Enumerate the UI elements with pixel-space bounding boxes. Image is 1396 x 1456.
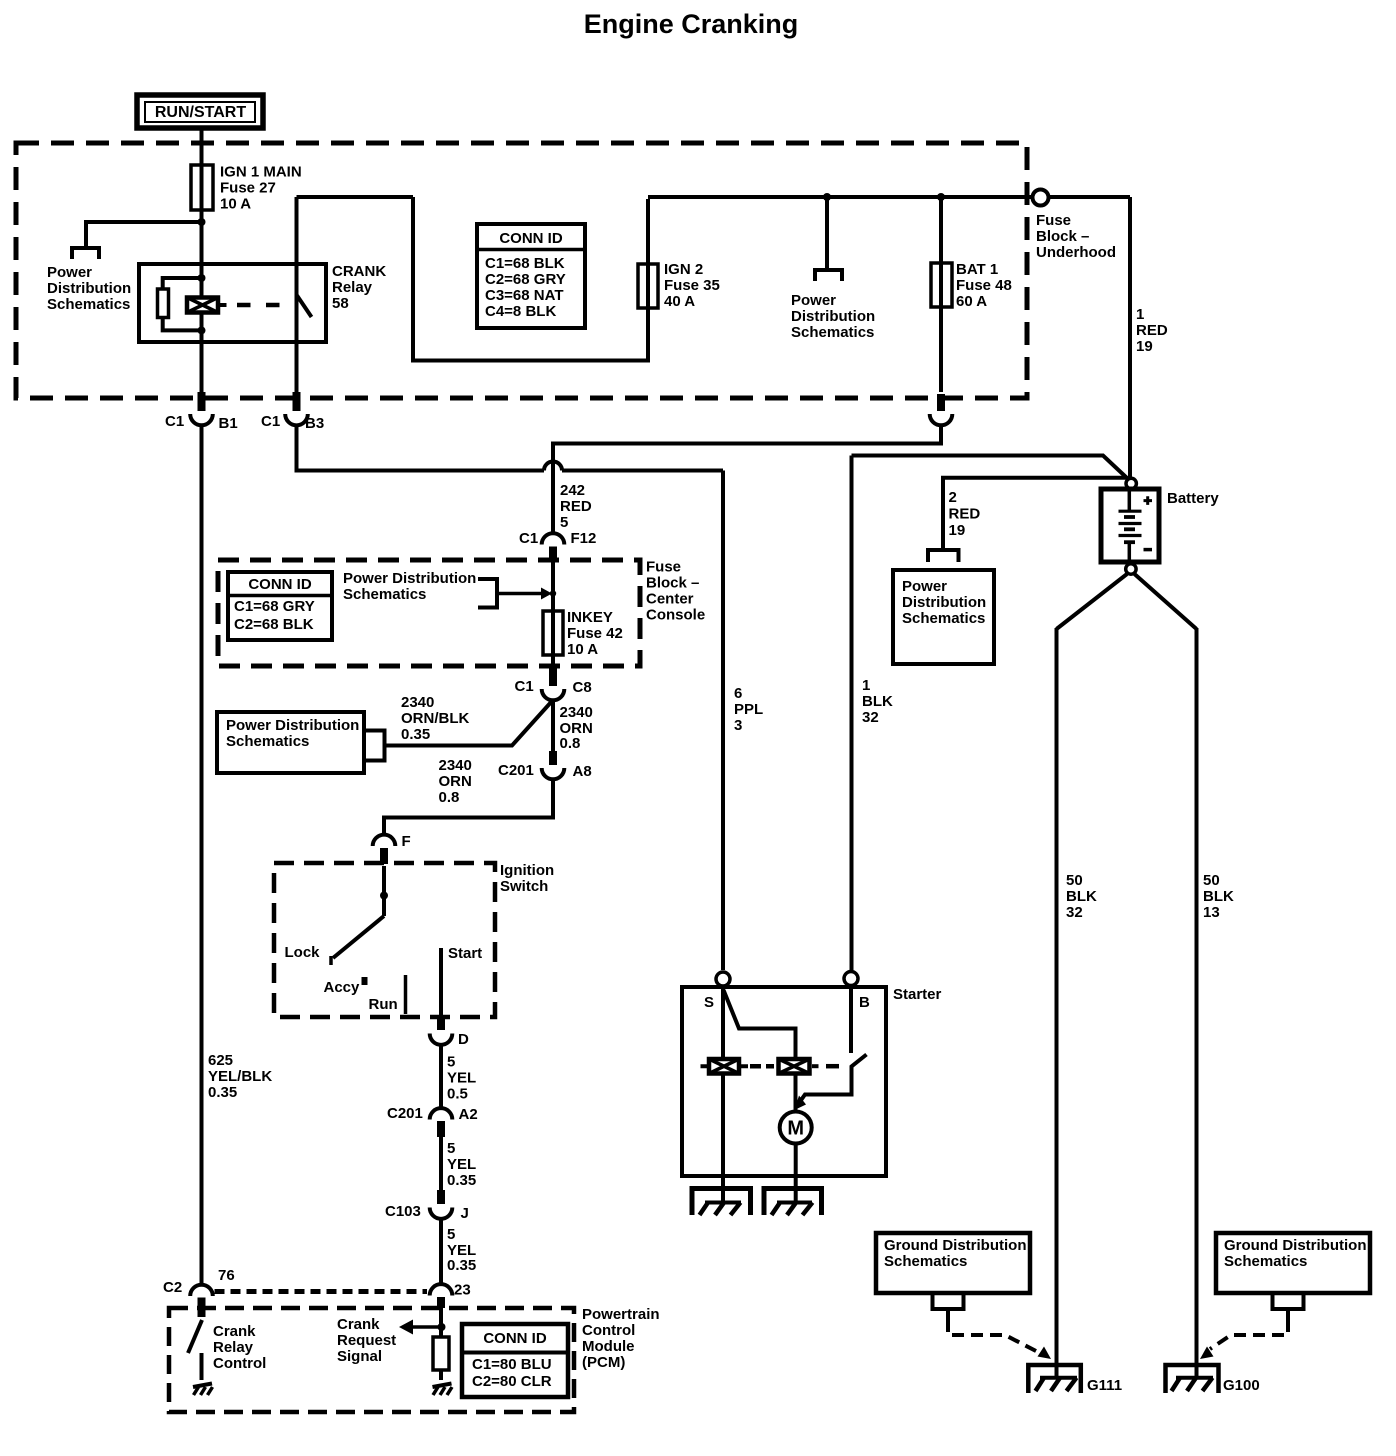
connector C201 A8 cup [542, 768, 565, 779]
wire IGN2 vertical redrawn through fuse [646, 262, 650, 310]
svg-text:CONN ID: CONN ID [483, 1330, 547, 1347]
svg-text:0.35: 0.35 [208, 1084, 237, 1101]
svg-text:Schematics: Schematics [47, 296, 130, 313]
arrow GD left pointer [1038, 1347, 1052, 1360]
wire loop down to IGN2 fuse [413, 197, 648, 361]
node junction dot above BAT1 fuse [937, 193, 945, 201]
wire console PDS pointer line [497, 592, 543, 596]
wire starter motor to case [794, 1144, 798, 1177]
svg-text:C2=80 CLR: C2=80 CLR [472, 1373, 552, 1390]
svg-text:YEL: YEL [447, 1070, 476, 1087]
svg-text:F12: F12 [571, 530, 597, 547]
svg-text:C2=68 GRY: C2=68 GRY [485, 271, 566, 288]
wire B3 to starter S run [297, 427, 545, 471]
node junction dot above PDS bracket [823, 193, 831, 201]
svg-text:Schematics: Schematics [1224, 1253, 1307, 1270]
connector C103 J stub [437, 1190, 445, 1204]
svg-text:19: 19 [949, 522, 966, 539]
svg-text:Schematics: Schematics [226, 733, 309, 750]
svg-text:S: S [704, 994, 714, 1011]
wire starter S vertical through solenoid [721, 986, 725, 1176]
svg-text:Fuse 27: Fuse 27 [220, 180, 276, 197]
svg-text:Accy: Accy [324, 979, 361, 996]
svg-text:1: 1 [862, 677, 870, 694]
svg-text:YEL/BLK: YEL/BLK [208, 1068, 272, 1085]
node coil bottom junction dot [198, 326, 206, 334]
svg-text:3: 3 [734, 717, 742, 734]
svg-text:2340: 2340 [560, 704, 593, 721]
svg-text:Block –: Block – [1036, 228, 1089, 245]
fuse F27 IGN 1 MAIN body [191, 165, 213, 210]
svg-text:BLK: BLK [1066, 888, 1097, 905]
ground chassis mini (crank relay control) [193, 1384, 213, 1396]
svg-text:B1: B1 [219, 415, 238, 432]
svg-text:1: 1 [1136, 306, 1144, 323]
wire Start contact down [439, 948, 443, 1017]
ground G111 [1028, 1365, 1081, 1393]
svg-text:C2=68 BLK: C2=68 BLK [234, 616, 314, 633]
svg-text:Request: Request [337, 1332, 396, 1349]
connector C1 B1 cup [190, 414, 213, 425]
connector BAT1 fuse output stub [937, 394, 945, 411]
wire crank relay control lower [200, 1353, 204, 1380]
svg-text:Signal: Signal [337, 1348, 382, 1365]
relay K58 CRANK Relay box [139, 264, 326, 342]
dashed box Powertrain Control Module [169, 1308, 574, 1412]
svg-text:60 A: 60 A [956, 293, 987, 310]
wire A8 to ignition switch F [384, 779, 553, 833]
svg-text:Control: Control [582, 1322, 635, 1339]
svg-text:BLK: BLK [862, 693, 893, 710]
wire 1 RED 19 battery feed [1128, 197, 1132, 477]
wire battery negative split diagonals [1057, 574, 1197, 629]
svg-text:Relay: Relay [332, 279, 373, 296]
wire junction to left reference stem [86, 222, 202, 246]
dashed box Fuse Block Center Console [218, 560, 640, 666]
node ignition pivot dot [380, 892, 388, 900]
svg-text:Fuse: Fuse [1036, 212, 1071, 229]
svg-text:J: J [461, 1205, 469, 1222]
svg-text:0.35: 0.35 [447, 1172, 476, 1189]
wire BAT1 fuse vertical [939, 197, 943, 392]
svg-text:C1=68 GRY: C1=68 GRY [234, 598, 315, 615]
node coil top junction dot [198, 274, 206, 282]
connector C1 C8 stub [549, 667, 557, 686]
reference bracket mid-left PDS [364, 731, 385, 761]
svg-text:RED: RED [1136, 322, 1168, 339]
svg-text:Power: Power [902, 578, 947, 595]
svg-text:F: F [402, 833, 411, 850]
svg-text:Engine Cranking: Engine Cranking [584, 9, 799, 39]
connector D stub [437, 1018, 445, 1030]
svg-text:Power: Power [47, 264, 92, 281]
svg-text:CRANK: CRANK [332, 263, 386, 280]
arrow to starter motor [795, 1096, 807, 1111]
svg-text:0.5: 0.5 [447, 1086, 468, 1103]
wire D to C201 A2 [439, 1046, 443, 1107]
svg-text:G111: G111 [1087, 1377, 1122, 1394]
wire RUN/START to IGN1 fuse to relay coil to B1 stub [200, 130, 204, 392]
svg-text:19: 19 [1136, 338, 1153, 355]
resistor PCM pull element [433, 1337, 449, 1370]
svg-text:32: 32 [862, 709, 879, 726]
wire relay coil parallel loop [163, 278, 202, 330]
wire relay switch vertical (to B3) [295, 197, 299, 392]
svg-text:76: 76 [218, 1267, 235, 1284]
box Ground Distribution Schematics (left) [876, 1233, 1030, 1293]
svg-text:C1: C1 [515, 678, 534, 695]
ignition Lock contact tick [329, 956, 333, 965]
wire starter hold-in vertical [794, 1058, 798, 1110]
svg-text:Ground Distribution: Ground Distribution [884, 1237, 1026, 1254]
svg-text:Battery: Battery [1167, 490, 1219, 507]
svg-text:2340: 2340 [439, 757, 472, 774]
svg-text:Switch: Switch [500, 878, 548, 895]
connector C1 F12 stub [549, 547, 557, 563]
connector C2 stub [198, 1298, 206, 1318]
wire starter M case ground lead [794, 1176, 798, 1202]
svg-text:0.8: 0.8 [439, 789, 460, 806]
connector C1 C8 cup [542, 689, 565, 700]
svg-text:5: 5 [447, 1054, 455, 1071]
svg-text:0.35: 0.35 [401, 726, 430, 743]
svg-text:IGN 1 MAIN: IGN 1 MAIN [220, 164, 302, 181]
svg-text:C1=68 BLK: C1=68 BLK [485, 255, 565, 272]
wire 1 BLK 32 top run to battery [852, 456, 1128, 479]
reference bracket GD right [1273, 1295, 1304, 1309]
svg-text:C3=68 NAT: C3=68 NAT [485, 287, 564, 304]
box Power Distribution Schematics (mid right) [893, 570, 994, 664]
svg-text:Lock: Lock [285, 944, 321, 961]
wire 6 PPL 3 to starter S [721, 471, 725, 971]
connector C1 B3 stub [293, 392, 301, 411]
connector 23 cap [430, 1284, 453, 1295]
node battery negative terminal [1126, 564, 1136, 574]
svg-text:10 A: 10 A [567, 641, 598, 658]
svg-text:C8: C8 [573, 679, 592, 696]
svg-text:23: 23 [454, 1282, 471, 1299]
svg-text:50: 50 [1203, 872, 1220, 889]
svg-text:INKEY: INKEY [567, 609, 613, 626]
svg-text:13: 13 [1203, 904, 1220, 921]
wire relay internal dashed link [237, 303, 292, 308]
arrow crank request (points left) [399, 1320, 413, 1335]
svg-text:Distribution: Distribution [791, 308, 875, 325]
svg-text:C201: C201 [498, 762, 534, 779]
battery BAT box [1101, 489, 1159, 562]
svg-text:C1: C1 [165, 413, 184, 430]
svg-text:D: D [458, 1031, 469, 1048]
wire dashed GD left pointer [948, 1320, 1036, 1351]
svg-text:Control: Control [213, 1355, 266, 1372]
connector C103 J cup [430, 1208, 453, 1219]
svg-text:50: 50 [1066, 872, 1083, 889]
dashed box Ignition Switch [274, 863, 495, 1017]
svg-text:Schematics: Schematics [791, 324, 874, 341]
svg-text:Crank: Crank [213, 1323, 256, 1340]
svg-text:Ignition: Ignition [500, 862, 554, 879]
node starter B terminal circle [844, 972, 858, 986]
reference bracket Power Distribution Schematics (top left) [72, 248, 99, 259]
wire 625 YEL/BLK long left drop [200, 427, 204, 1283]
wire top feed line y=197 right segment [648, 195, 1130, 199]
ground starter case (left) [692, 1189, 751, 1216]
wire dashed GD right pointer [1210, 1320, 1288, 1349]
connector BAT1 fuse output cup [930, 414, 953, 425]
wire 1 BLK 32 to starter B [850, 456, 854, 971]
svg-text:10 A: 10 A [220, 196, 251, 213]
wire diagonal branch to PDS (2340 ORN/BLK) [385, 700, 554, 746]
arrow GD right pointer [1200, 1347, 1214, 1360]
svg-text:5: 5 [560, 514, 568, 531]
svg-text:6: 6 [734, 685, 742, 702]
svg-text:CONN ID: CONN ID [499, 230, 563, 247]
svg-text:Power: Power [791, 292, 836, 309]
reference bracket GD left [933, 1295, 964, 1309]
svg-text:BLK: BLK [1203, 888, 1234, 905]
svg-text:0.8: 0.8 [560, 735, 581, 752]
connector C1 B1 stub [198, 392, 206, 411]
svg-text:Powertrain: Powertrain [582, 1306, 660, 1323]
relay switch blade [297, 296, 312, 318]
svg-text:Distribution: Distribution [47, 280, 131, 297]
svg-text:BAT 1: BAT 1 [956, 261, 998, 278]
svg-text:Relay: Relay [213, 1339, 254, 1356]
svg-text:58: 58 [332, 295, 349, 312]
connector C201 A2 cap [430, 1108, 453, 1119]
svg-text:Crank: Crank [337, 1316, 380, 1333]
ground chassis mini (PCM) [433, 1384, 453, 1396]
connector C2 cap [190, 1285, 213, 1296]
reference bracket console PDS [478, 579, 497, 608]
svg-text:5: 5 [447, 1226, 455, 1243]
wire 50 BLK 32 to G111 [1055, 628, 1059, 1376]
svg-text:Underhood: Underhood [1036, 244, 1116, 261]
connector C1 B3 cup [285, 414, 308, 425]
wire dashed 76 link C2 to 23 [215, 1289, 428, 1294]
wire 2 RED 19 run to battery [943, 478, 1126, 548]
svg-text:Center: Center [646, 591, 694, 608]
svg-text:0.35: 0.35 [447, 1257, 476, 1274]
node junction dot crank request [438, 1323, 446, 1331]
wire 50 BLK 13 to G100 [1195, 628, 1199, 1376]
conn-id table PCM [462, 1324, 568, 1397]
wire crank request pointer [408, 1325, 441, 1329]
svg-text:A8: A8 [573, 763, 592, 780]
svg-text:242: 242 [560, 482, 585, 499]
svg-text:A2: A2 [459, 1106, 478, 1123]
battery minus sign [1144, 548, 1153, 552]
svg-text:RED: RED [949, 506, 981, 523]
svg-text:Start: Start [448, 945, 482, 962]
svg-text:C1=80 BLU: C1=80 BLU [472, 1356, 552, 1373]
node junction dot at INKEY feed [550, 590, 556, 596]
fuse F48 BAT 1 body [931, 263, 952, 307]
svg-text:Block –: Block – [646, 575, 699, 592]
svg-text:Power Distribution: Power Distribution [343, 570, 476, 587]
connector 23 stub [437, 1297, 445, 1308]
svg-text:M: M [787, 1118, 804, 1140]
box Ground Distribution Schematics (right) [1216, 1233, 1370, 1293]
battery internal cell stack [1119, 491, 1142, 560]
wire hump crossover at 242 RED [544, 462, 562, 471]
node junction dot below fuse 27 [198, 218, 206, 226]
svg-text:625: 625 [208, 1052, 233, 1069]
svg-text:32: 32 [1066, 904, 1083, 921]
resistor relay suppression element [158, 289, 169, 318]
svg-text:Schematics: Schematics [902, 610, 985, 627]
svg-text:YEL: YEL [447, 1156, 476, 1173]
wire 242 RED drop from BAT1 line [553, 427, 941, 532]
wire A2 to C103 J [439, 1137, 443, 1190]
svg-text:C201: C201 [387, 1105, 423, 1122]
svg-text:RED: RED [560, 498, 592, 515]
ignition Run contact tick [404, 975, 408, 1014]
svg-text:Schematics: Schematics [343, 586, 426, 603]
node RUN/START box [137, 95, 263, 128]
wire INKEY fuse vertical [551, 562, 555, 666]
svg-text:2340: 2340 [401, 694, 434, 711]
svg-text:IGN 2: IGN 2 [664, 261, 703, 278]
svg-text:Fuse 35: Fuse 35 [664, 277, 720, 294]
svg-text:Distribution: Distribution [902, 594, 986, 611]
relay coil X-box symbol [187, 298, 227, 313]
dashed box Fuse Block Underhood boundary [16, 143, 1027, 398]
fuse F35 IGN 2 body [638, 264, 658, 308]
svg-text:RUN/START: RUN/START [155, 104, 246, 121]
svg-text:5: 5 [447, 1140, 455, 1157]
arrow console PDS pointer [541, 588, 552, 600]
wire C8 to C201 A8 [551, 700, 555, 751]
ignition switch blade to Lock [333, 916, 384, 958]
connector C201 A2 stub [437, 1121, 445, 1137]
starter motor box [682, 987, 886, 1176]
connector C1 F12 cap [542, 533, 565, 544]
svg-text:Module: Module [582, 1338, 635, 1355]
wire starter B down to contact [849, 986, 853, 1053]
svg-text:C2: C2 [163, 1279, 182, 1296]
svg-text:G100: G100 [1223, 1377, 1260, 1394]
svg-text:2: 2 [949, 489, 957, 506]
svg-text:PPL: PPL [734, 701, 763, 718]
wire top feed line y=197 left segment [297, 195, 414, 199]
svg-text:Console: Console [646, 607, 705, 624]
connector D cup [430, 1034, 453, 1045]
svg-text:Schematics: Schematics [884, 1253, 967, 1270]
svg-text:ORN/BLK: ORN/BLK [401, 710, 469, 727]
svg-text:C1: C1 [261, 413, 280, 430]
connector F stub [380, 848, 388, 864]
node starter S terminal circle [716, 972, 730, 986]
svg-text:Fuse: Fuse [646, 559, 681, 576]
connector circle fuse block underhood [1033, 190, 1049, 206]
wire J to PCM 23 [439, 1220, 443, 1283]
conn-id table center console [228, 572, 332, 640]
starter contact blade [799, 1055, 867, 1104]
ignition Accy contact tick [362, 977, 368, 985]
ground G100 [1166, 1365, 1219, 1393]
svg-text:B3: B3 [305, 415, 324, 432]
wire starter S case ground lead [721, 1176, 725, 1202]
wire starter internal dashed links [750, 1064, 774, 1069]
wire ignition feed inside [382, 866, 386, 916]
starter motor M circle [780, 1112, 812, 1144]
svg-text:B: B [859, 994, 870, 1011]
svg-text:Fuse 42: Fuse 42 [567, 625, 623, 642]
wire PCM internal vertical [439, 1308, 443, 1380]
battery plus sign [1144, 496, 1153, 505]
svg-text:C1: C1 [519, 530, 538, 547]
node battery positive terminal [1126, 478, 1136, 488]
svg-text:Fuse 48: Fuse 48 [956, 277, 1012, 294]
reference bracket 2 RED PDS [928, 550, 959, 562]
conn-id table underhood [477, 224, 585, 328]
reference bracket Power Distribution Schematics (top middle) [815, 270, 842, 281]
fuse F42 INKEY body [543, 611, 563, 655]
ground starter case (right) [764, 1189, 822, 1216]
crank relay control switch blade [188, 1320, 202, 1353]
svg-text:Run: Run [369, 996, 398, 1013]
connector F cap [373, 835, 396, 846]
svg-text:Starter: Starter [893, 986, 942, 1003]
starter solenoid X-box 2 [779, 1059, 819, 1074]
svg-text:40 A: 40 A [664, 293, 695, 310]
wire stem to PDS bracket (top middle) [825, 197, 829, 268]
svg-text:ORN: ORN [439, 773, 472, 790]
svg-text:C103: C103 [385, 1203, 421, 1220]
svg-text:Power Distribution: Power Distribution [226, 717, 359, 734]
starter solenoid X-box 1 [701, 1059, 749, 1074]
svg-text:C4=8 BLK: C4=8 BLK [485, 303, 556, 320]
svg-text:CONN ID: CONN ID [248, 576, 312, 593]
starter solenoid blade from S [724, 990, 796, 1058]
svg-text:(PCM): (PCM) [582, 1354, 625, 1371]
connector C201 A8 stub [549, 751, 557, 765]
svg-text:Ground Distribution: Ground Distribution [1224, 1237, 1366, 1254]
box Power Distribution Schematics (mid left) [217, 712, 364, 773]
